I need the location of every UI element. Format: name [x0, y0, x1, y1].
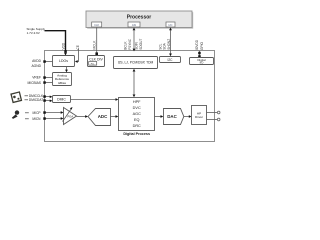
wire MICBIAS [43, 81, 52, 84]
HP driver box [192, 106, 207, 125]
svg-text:AGC: AGC [133, 112, 141, 116]
processor pin box ASI [128, 22, 140, 27]
svg-text:HPF: HPF [133, 100, 141, 104]
svg-text:1.7V-3.6V: 1.7V-3.6V [27, 31, 40, 35]
wire ASI to digital process bidirectional [133, 69, 136, 98]
terminal OUTM [217, 118, 220, 121]
svg-text:EQ: EQ [134, 118, 140, 122]
wire DMICCLK [43, 95, 52, 98]
svg-text:FSYNC: FSYNC [128, 38, 132, 50]
CLK DIV box [88, 56, 105, 67]
processor pin box I2C [166, 22, 175, 27]
wire ADC to digital process [111, 115, 119, 118]
svg-text:PGA: PGA [68, 115, 74, 119]
svg-text:MICN: MICN [32, 117, 41, 121]
svg-text:Driver: Driver [195, 115, 203, 119]
svg-text:VDD: VDD [61, 42, 65, 49]
svg-text:BCLK: BCLK [123, 41, 127, 50]
svg-text:SHDNZ: SHDNZ [167, 39, 171, 50]
wire PGA to ADC [77, 115, 89, 118]
svg-text:&Bias: &Bias [58, 81, 67, 85]
svg-text:DMIC: DMIC [57, 98, 66, 102]
wire MICP [43, 111, 63, 114]
wire VREF [43, 76, 52, 79]
svg-text:CLK: CLK [94, 23, 99, 27]
svg-text:SDIN: SDIN [135, 41, 139, 49]
svg-text:DVC: DVC [133, 106, 141, 110]
wire AVDD [43, 60, 52, 63]
wire DMICDAT [43, 99, 52, 102]
mic dash 1 [25, 112, 29, 114]
wire MICN [43, 117, 63, 120]
wire CE to LDOs [75, 49, 79, 63]
dmic dash 2 [25, 99, 29, 101]
svg-text:AGND: AGND [31, 64, 41, 68]
svg-text:MICP: MICP [33, 111, 41, 115]
svg-text:CLK DIV: CLK DIV [89, 57, 103, 61]
processor pin box CLK [92, 22, 102, 27]
wire I2C bidirectional [169, 28, 172, 57]
svg-text:ASI: ASI [132, 23, 136, 27]
wire DAC to HP driver [184, 115, 192, 118]
PGA amplifier [63, 107, 77, 125]
wire OUTM [207, 119, 218, 121]
processor shadow [87, 12, 193, 29]
analog mic icon [12, 110, 19, 119]
svg-text:MICBIAS: MICBIAS [27, 81, 41, 85]
svg-text:AVDD: AVDD [32, 59, 42, 63]
digital process box [119, 98, 155, 131]
supply note [27, 27, 46, 35]
svg-text:IOVDD: IOVDD [195, 39, 199, 50]
wire DMIC to digital process [71, 98, 119, 101]
terminal OUTP [217, 111, 220, 114]
DMIC box [53, 96, 71, 103]
DAC converter [164, 109, 184, 125]
wire digital process to DAC [155, 115, 164, 118]
wire IOVDD GPIO pins [198, 51, 201, 58]
chip outline [45, 51, 215, 142]
svg-text:VREF: VREF [32, 76, 41, 80]
svg-text:SDOUT: SDOUT [139, 39, 143, 50]
svg-text:CE: CE [76, 45, 80, 49]
I2C box [160, 57, 181, 63]
wire LDOs to reference [65, 67, 68, 73]
svg-text:SDA: SDA [162, 42, 166, 49]
wire ASI bidirectional upper [133, 28, 136, 52]
svg-text:LDOs: LDOs [59, 59, 68, 63]
ASI box [114, 57, 158, 69]
svg-text:I2C: I2C [168, 58, 174, 62]
svg-text:I2C: I2C [168, 23, 172, 27]
svg-text:ADC: ADC [98, 114, 108, 119]
wire OUTP [207, 112, 218, 114]
svg-text:DRC: DRC [133, 124, 141, 128]
svg-text:DMICDAT: DMICDAT [29, 98, 43, 102]
svg-text:GPIO: GPIO [200, 42, 204, 50]
analog reference box [53, 73, 72, 86]
digital mic icon [11, 92, 21, 102]
Digital IO box [190, 58, 214, 65]
svg-text:Digital Process: Digital Process [123, 132, 150, 136]
wire MCLK [95, 28, 98, 56]
svg-text:Processor: Processor [127, 14, 152, 20]
svg-text:DAC: DAC [167, 114, 177, 119]
LDOs box [53, 56, 75, 67]
dmic dash 1 [25, 95, 29, 97]
processor box [86, 11, 192, 28]
svg-text:I2S, LJ, PCM/DSP, TDM: I2S, LJ, PCM/DSP, TDM [118, 61, 154, 65]
supply wire VDD [45, 31, 67, 56]
svg-text:MCLK: MCLK [93, 40, 97, 50]
mic dash 2 [25, 118, 29, 120]
ADC converter [88, 109, 111, 126]
